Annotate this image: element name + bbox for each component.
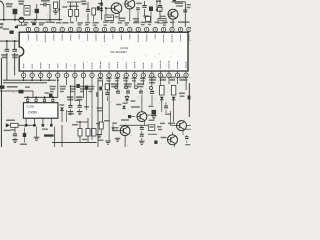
svg-text:IC201: IC201	[121, 46, 129, 50]
svg-text:TDL-MAGNET: TDL-MAGNET	[110, 50, 127, 54]
svg-text:Z4090: Z4090	[28, 111, 37, 115]
svg-text:IC300: IC300	[27, 105, 35, 109]
